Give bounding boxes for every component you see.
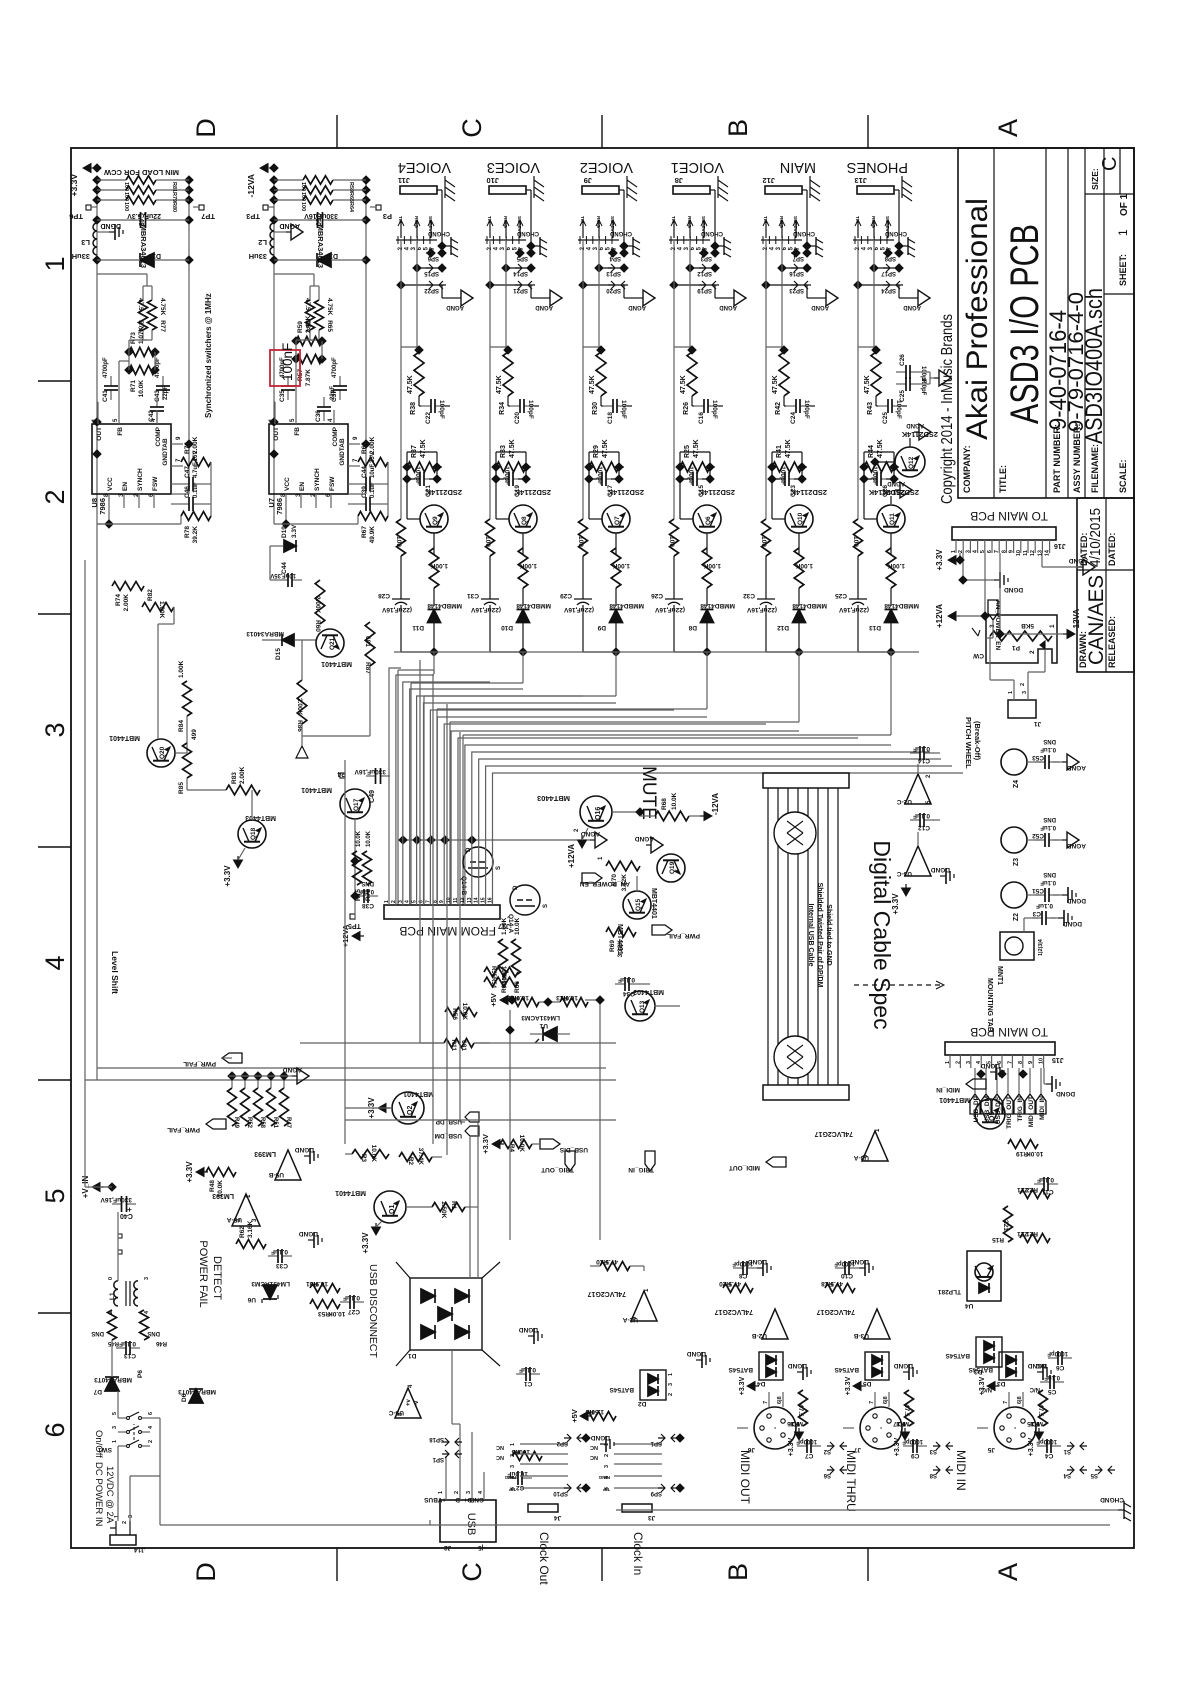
svg-text:100pF: 100pF (414, 466, 421, 485)
diode D13 MMBD4148 (885, 610, 898, 623)
an_power_en flag (582, 873, 602, 883)
feedback resistor pair R76 R77 (139, 300, 148, 330)
svg-text:R64: R64 (348, 202, 354, 213)
svg-text:SP2: SP2 (556, 1440, 568, 1446)
svg-text:R71: R71 (130, 380, 137, 392)
capacitor C5 0.1uF (1040, 1381, 1050, 1383)
svg-text:SP14: SP14 (513, 270, 528, 276)
svg-text:C8: C8 (739, 1272, 748, 1279)
svg-text:3.16K: 3.16K (247, 1220, 254, 1238)
r2/c2 junctions (584, 462, 594, 472)
svg-text:1: 1 (112, 1440, 118, 1443)
svg-text:22uF, 6.3V: 22uF, 6.3V (127, 212, 161, 219)
svg-text:4: 4 (40, 955, 70, 970)
svg-text:R65: R65 (326, 320, 333, 332)
svg-text:Akai Professional: Akai Professional (961, 198, 994, 440)
svg-text:5: 5 (412, 900, 418, 903)
resistor R16 47.5 (799, 1390, 808, 1426)
svg-text:1.00K: 1.00K (158, 601, 165, 619)
svg-text:Q11: Q11 (889, 513, 896, 525)
strip rail junctions (611, 647, 621, 657)
resistor R2 37.4K (399, 1153, 432, 1162)
svg-text:RING: RING (686, 216, 692, 228)
power arrow rail (83, 164, 91, 173)
svg-text:C12: C12 (918, 824, 930, 831)
dgnd midi (1037, 1371, 1043, 1373)
j15 junctions (976, 1069, 986, 1079)
svg-text:100pF: 100pF (687, 466, 694, 485)
svg-text:Q5: Q5 (989, 1112, 996, 1121)
svg-text:J3: J3 (648, 1514, 656, 1521)
svg-text:5KB: 5KB (1021, 622, 1034, 629)
svg-text:2.00K: 2.00K (296, 698, 303, 716)
svg-text:USB_DM: USB_DM (435, 1132, 462, 1139)
+3.3V arrow q1 (372, 1227, 381, 1235)
capacitor C19 100pF vertical (499, 478, 509, 480)
svg-text:47.5K: 47.5K (509, 439, 516, 458)
+12VA arrow q17 (352, 932, 360, 941)
diode D5 BAT54S (865, 1352, 889, 1380)
svg-text:+3.3V: +3.3V (361, 1232, 370, 1254)
svg-text:+3.3V: +3.3V (739, 1376, 746, 1395)
svg-text:PART NUMBER:: PART NUMBER: (1052, 424, 1062, 493)
svg-text:R81: R81 (171, 182, 177, 192)
capacitor C20 100pF (510, 405, 520, 407)
+3.3V arrow midi (853, 1382, 861, 1391)
svg-text:R42: R42 (775, 402, 782, 415)
resistor R68 10.0K (655, 811, 689, 821)
svg-text:100pF: 100pF (779, 466, 786, 485)
svg-text:AGND: AGND (279, 222, 300, 229)
svg-text:R46: R46 (155, 1340, 167, 1346)
svg-text:SP17: SP17 (881, 270, 896, 276)
svg-text:BAT54S: BAT54S (728, 1366, 753, 1373)
svg-text:R56: R56 (451, 1008, 458, 1020)
capacitor C33 0.1uF (268, 1255, 278, 1257)
spark gap SP19 (674, 284, 715, 286)
RING signal wire (598, 240, 600, 268)
svg-text:100pF: 100pF (620, 400, 627, 419)
svg-text:D19: D19 (281, 526, 288, 538)
svg-text:R4: R4 (508, 1144, 515, 1153)
svg-text:R70: R70 (611, 874, 618, 886)
svg-text:VCC: VCC (284, 477, 291, 491)
svg-text:2: 2 (955, 1061, 961, 1064)
svg-text:DGND: DGND (591, 1434, 610, 1441)
resistor R34 47.5K (503, 352, 513, 396)
svg-text:LM431ACM3: LM431ACM3 (251, 1280, 290, 1287)
svg-text:MNT1: MNT1 (996, 966, 1003, 985)
svg-text:LM393: LM393 (254, 1150, 276, 1157)
resistor 1.00K emitter (702, 548, 712, 588)
dgnd u5b (304, 1155, 310, 1157)
transistor Q13 MBT4403 (625, 991, 655, 1021)
svg-text:100pF: 100pF (596, 466, 603, 485)
diode D8 MMBD4148 (701, 610, 714, 623)
svg-text:C34: C34 (623, 990, 635, 997)
svg-text:C52: C52 (1032, 832, 1044, 839)
svg-text:B: B (723, 1563, 753, 1581)
svg-text:A: A (993, 119, 1023, 137)
resistor R12 10.0K (511, 998, 539, 1007)
svg-text:4: 4 (405, 900, 411, 903)
svg-text:SP3: SP3 (700, 255, 712, 261)
svg-text:NC: NC (496, 1444, 504, 1450)
svg-text:POWER FAIL: POWER FAIL (197, 1240, 209, 1307)
svg-text:P1: P1 (1012, 644, 1020, 651)
svg-text:15: 15 (481, 897, 487, 903)
svg-text:C13: C13 (124, 1352, 136, 1359)
svg-text:Q13: Q13 (639, 1000, 646, 1013)
svg-text:+3.3V: +3.3V (891, 893, 900, 915)
svg-text:R59: R59 (348, 182, 354, 192)
svg-text:330uF,16V: 330uF,16V (100, 1196, 132, 1203)
resistor R6 1.50K (586, 1412, 616, 1421)
transistor Q17 MBT4401 (340, 789, 370, 819)
capacitor C16 100pF (694, 405, 704, 407)
svg-text:J13: J13 (854, 176, 867, 185)
svg-text:AGND: AGND (535, 304, 553, 310)
highlight box 100nF (270, 350, 300, 386)
analog ground AGND (441, 285, 443, 298)
mosfet Q14-B (463, 847, 493, 877)
title block drawn/released box (1077, 498, 1134, 672)
svg-text:6: 6 (148, 1412, 154, 1415)
svg-text:U2-C: U2-C (897, 798, 912, 805)
resistor R17 47.5 (905, 1390, 914, 1426)
resistor R1 1.50K (432, 1203, 465, 1212)
capacitor C44 (356, 483, 366, 485)
svg-text:SP22: SP22 (424, 287, 439, 293)
svg-text:39.2K: 39.2K (192, 526, 199, 544)
svg-text:14: 14 (474, 897, 480, 903)
collector wire (589, 518, 602, 520)
svg-text:1: 1 (951, 550, 957, 553)
svg-text:R22: R22 (1026, 1186, 1038, 1193)
svg-text:BAT54S: BAT54S (609, 1386, 634, 1393)
j16 junction diamonds (955, 555, 965, 565)
capacitor C23 100pF vertical (775, 478, 785, 480)
IC left pins (285, 494, 287, 508)
svg-text:6: 6 (40, 1422, 70, 1437)
svg-text:U4: U4 (965, 1302, 974, 1309)
svg-text:DGND: DGND (748, 1258, 767, 1265)
spark gap SP14 (506, 267, 531, 269)
svg-text:GNDTAB: GNDTAB (339, 438, 346, 466)
svg-text:OUT: OUT (96, 427, 103, 441)
svg-text:1|2|3|4: 1|2|3|4 (1038, 938, 1044, 956)
usb connector J2 (440, 1500, 496, 1542)
agnd bus triangle (590, 839, 595, 841)
svg-text:TP6: TP6 (69, 212, 83, 221)
svg-text:2.00K: 2.00K (123, 594, 130, 612)
resistor R87 681 (365, 622, 375, 666)
svg-text:AGND: AGND (446, 304, 464, 310)
spark gap SP2 (564, 1437, 584, 1439)
svg-text:5: 5 (510, 1487, 516, 1490)
capacitor C9 1000pF (903, 1445, 913, 1447)
DIN connector J7 (860, 1407, 902, 1449)
divider junctions (291, 336, 301, 346)
jack connector J11 (400, 186, 437, 194)
usb routing wires (344, 760, 346, 1144)
svg-text:47.5K: 47.5K (496, 375, 503, 394)
diode D15 MBRA34013 (282, 634, 294, 646)
svg-text:TIP: TIP (670, 216, 676, 224)
svg-text:R69: R69 (609, 940, 616, 952)
analog ground AGND (530, 285, 532, 298)
svg-text:0.1uF: 0.1uF (1036, 902, 1053, 909)
svg-text:7986: 7986 (98, 498, 107, 515)
resistor R10 47.5 (600, 1262, 630, 1271)
dgnd midi (797, 1371, 803, 1373)
svg-text:SP9: SP9 (650, 1490, 662, 1496)
capacitor C40 330uF,16V (112, 1203, 122, 1205)
r2/c2 junctions (491, 462, 501, 472)
resistor R44 47.5K vertical (864, 462, 894, 472)
svg-text:1.00K: 1.00K (519, 562, 537, 569)
svg-text:TRIG_IN: TRIG_IN (1017, 1096, 1024, 1122)
svg-text:47.5K: 47.5K (772, 375, 779, 394)
svg-text:U6: U6 (247, 1296, 256, 1303)
transistor Q8 2SD2114K (509, 505, 537, 533)
rail junctions (92, 449, 102, 459)
connector J16 TO MAIN PCB body (952, 527, 1056, 540)
svg-text:C: C (457, 1562, 487, 1582)
j15 net flags (970, 1094, 980, 1114)
svg-text:C22: C22 (425, 412, 432, 424)
+3.3V arrow r48 (196, 1168, 204, 1177)
svg-text:TP7: TP7 (201, 212, 215, 221)
+5V arrow r6 (580, 1412, 588, 1421)
svg-text:1: 1 (668, 1373, 674, 1376)
midi bottom rail (616, 1509, 1110, 1511)
svg-text:Q8: Q8 (521, 516, 528, 525)
svg-text:C38: C38 (362, 902, 374, 909)
diode D3 BAT54S (999, 1352, 1023, 1380)
svg-text:681: 681 (460, 1040, 467, 1051)
power arrow rail (260, 164, 268, 173)
svg-text:2: 2 (454, 1491, 460, 1494)
svg-text:SP10: SP10 (553, 1490, 568, 1496)
jack chassis hatch (626, 176, 628, 198)
svg-text:C9: C9 (911, 1452, 920, 1459)
svg-text:0.1uF: 0.1uF (343, 1294, 360, 1301)
svg-text:MIDI_IN: MIDI_IN (936, 1086, 960, 1093)
svg-text:16: 16 (488, 897, 494, 903)
svg-text:MIDI IN: MIDI IN (954, 1450, 968, 1491)
svg-text:R43: R43 (867, 402, 874, 415)
svg-text:3: 3 (668, 1383, 674, 1386)
svg-text:100: 100 (123, 192, 129, 201)
svg-text:100pF: 100pF (503, 466, 510, 485)
svg-text:12: 12 (460, 897, 466, 903)
usb_dis flag (540, 1139, 560, 1149)
svg-text:4.75K: 4.75K (159, 298, 166, 316)
svg-text:2SD2114K: 2SD2114K (514, 488, 551, 497)
svg-text:7: 7 (994, 550, 1000, 553)
svg-text:PHONES: PHONES (847, 159, 908, 175)
spark gap SP1 (658, 1437, 678, 1439)
capacitor C35 (287, 390, 289, 400)
svg-text:FB: FB (294, 427, 301, 436)
optocoupler U4 TLP281 (967, 1251, 1001, 1301)
svg-text:MIN LOAD FOR CCW: MIN LOAD FOR CCW (103, 168, 179, 177)
svg-text:R17: R17 (893, 1420, 905, 1427)
svg-text:+3.3V: +3.3V (788, 1437, 795, 1456)
svg-text:C31: C31 (467, 592, 479, 599)
transistor Q1 MBT4401 (374, 1191, 406, 1223)
svg-text:Q18: Q18 (250, 827, 257, 840)
svg-text:100K: 100K (500, 966, 506, 981)
svg-text:D-: D- (453, 1496, 460, 1503)
svg-text:47.5K: 47.5K (420, 439, 427, 458)
svg-text:NC: NC (590, 1444, 598, 1450)
svg-text:100: 100 (577, 536, 584, 547)
svg-text:R78: R78 (184, 526, 191, 538)
resistor R41 47.5K vertical (772, 462, 802, 472)
svg-text:0.1uF: 0.1uF (618, 976, 635, 983)
connector J15 TO MAIN PCB body (945, 1042, 1055, 1055)
midi out flag (766, 1157, 786, 1167)
svg-text:100pF: 100pF (871, 466, 878, 485)
svg-text:U3-C: U3-C (897, 870, 912, 877)
jack sleeve wire (619, 189, 624, 191)
diode D7 MBRA340T3 (105, 1377, 119, 1391)
svg-text:4/10/2015: 4/10/2015 (1087, 508, 1104, 567)
transistor Q20 MBT4401 (147, 739, 175, 767)
svg-text:D8: D8 (688, 624, 697, 631)
RING signal wire (505, 240, 507, 268)
svg-text:5: 5 (40, 1188, 70, 1203)
svg-text:10.0K: 10.0K (511, 994, 529, 1001)
svg-text:3: 3 (112, 1426, 118, 1429)
svg-text:+3.3V: +3.3V (935, 549, 944, 571)
capacitor C37 (339, 390, 341, 400)
svg-text:1.00K: 1.00K (795, 562, 813, 569)
svg-text:J10: J10 (486, 176, 499, 185)
svg-text:3: 3 (144, 1277, 150, 1280)
svg-text:(22uF,16V: (22uF,16V (746, 606, 777, 613)
svg-text:C26: C26 (899, 354, 906, 366)
collector wire (680, 518, 693, 520)
svg-text:DNS: DNS (1043, 871, 1056, 877)
svg-text:C4: C4 (1045, 1452, 1054, 1459)
divider junctions (124, 347, 134, 357)
svg-text:CHGND: CHGND (884, 230, 907, 236)
spark gap SP9 (658, 1487, 678, 1489)
resistor R37 47.5K vertical (407, 462, 437, 472)
svg-text:+: + (125, 1207, 134, 1212)
transistor Q19 MBT4401 (657, 854, 685, 882)
svg-text:+VBUS: +VBUS (423, 1496, 446, 1503)
svg-text:R45: R45 (107, 1340, 119, 1346)
svg-text:47.5K: 47.5K (785, 439, 792, 458)
svg-text:R54: R54 (490, 977, 496, 989)
svg-text:C41: C41 (102, 390, 109, 402)
jack pin stubs TIP RING SLEEVE (857, 220, 859, 238)
svg-text:MMBD4148: MMBD4148 (427, 602, 462, 609)
svg-text:Digital Cable Spec: Digital Cable Spec (869, 840, 895, 1029)
svg-text:Q2: Q2 (407, 1106, 414, 1115)
svg-text:MBRA340T3: MBRA340T3 (178, 1388, 216, 1395)
svg-text:R49: R49 (233, 1117, 239, 1129)
base wire (890, 533, 892, 555)
svg-text:C: C (457, 118, 487, 138)
svg-text:D13: D13 (869, 624, 881, 631)
svg-text:R21: R21 (1026, 1230, 1038, 1237)
svg-text:D9: D9 (597, 624, 606, 631)
svg-text:MMBD4148: MMBD4148 (792, 602, 827, 609)
svg-text:D: D (466, 847, 472, 852)
svg-text:MIDI THRU: MIDI THRU (844, 1450, 858, 1512)
resistor 1.00K emitter (611, 548, 621, 588)
connector J14 barrel (110, 1535, 136, 1545)
base wire (433, 533, 435, 555)
+3.3V arrow r4 (492, 1140, 500, 1149)
svg-text:8: 8 (1018, 1061, 1024, 1064)
svg-text:R1: R1 (450, 1201, 457, 1210)
svg-text:RING: RING (413, 216, 419, 228)
resistor R46 DNS (140, 1310, 149, 1340)
strip output wire to bus (706, 652, 708, 674)
svg-text:Q10: Q10 (797, 512, 804, 525)
svg-text:0.1uF: 0.1uF (119, 1340, 136, 1347)
svg-text:R67: R67 (361, 526, 368, 538)
svg-text:Q12: Q12 (908, 456, 915, 469)
diode D4 BAT54S (759, 1352, 783, 1380)
resistor R19 10.0K (1008, 1140, 1038, 1149)
phones extra transistor Q12 2SD2114K (895, 447, 925, 477)
capacitor C21 100pF vertical (410, 478, 420, 480)
svg-text:R48: R48 (209, 1180, 216, 1192)
op-amp U2-A 74LVC2G17 (631, 1291, 657, 1321)
resistor R29 47.5K vertical (589, 462, 619, 472)
svg-text:P6: P6 (137, 1370, 144, 1378)
svg-text:C3: C3 (1032, 910, 1041, 917)
svg-text:C24: C24 (790, 412, 797, 424)
transistor Q16 MBT4403 (580, 796, 612, 828)
DIN connector J5 (994, 1407, 1036, 1449)
svg-text:47.5: 47.5 (728, 1280, 741, 1287)
svg-text:J11: J11 (398, 176, 410, 185)
svg-text:11: 11 (453, 897, 459, 903)
capacitor C36 (323, 411, 325, 421)
svg-text:CHGND: CHGND (792, 230, 815, 236)
svg-text:+3.3V: +3.3V (223, 865, 232, 887)
svg-text:R55: R55 (490, 966, 496, 978)
svg-text:DGND: DGND (788, 1362, 807, 1369)
svg-text:3: 3 (398, 900, 404, 903)
connector J1 (1008, 700, 1036, 718)
svg-text:100pF: 100pF (527, 400, 534, 419)
strip rail junctions (518, 647, 528, 657)
svg-text:2.00K: 2.00K (369, 436, 376, 454)
resistor R82 1.00K (142, 603, 174, 612)
svg-text:10.0K: 10.0K (328, 1310, 346, 1317)
dgnd detect (308, 1239, 314, 1241)
svg-text:10.0K: 10.0K (671, 792, 678, 810)
bridge D1 box (410, 1278, 482, 1350)
cable shield circle left (774, 1036, 816, 1078)
svg-text:MBT4401: MBT4401 (109, 734, 140, 741)
spark gap SP21 (490, 284, 531, 286)
cable shield circle right (774, 812, 816, 854)
resistor R45 DNS (108, 1310, 117, 1340)
svg-text:MBT4401: MBT4401 (403, 1090, 434, 1097)
svg-text:SP13: SP13 (606, 270, 621, 276)
svg-text:Z3: Z3 (1013, 858, 1020, 866)
